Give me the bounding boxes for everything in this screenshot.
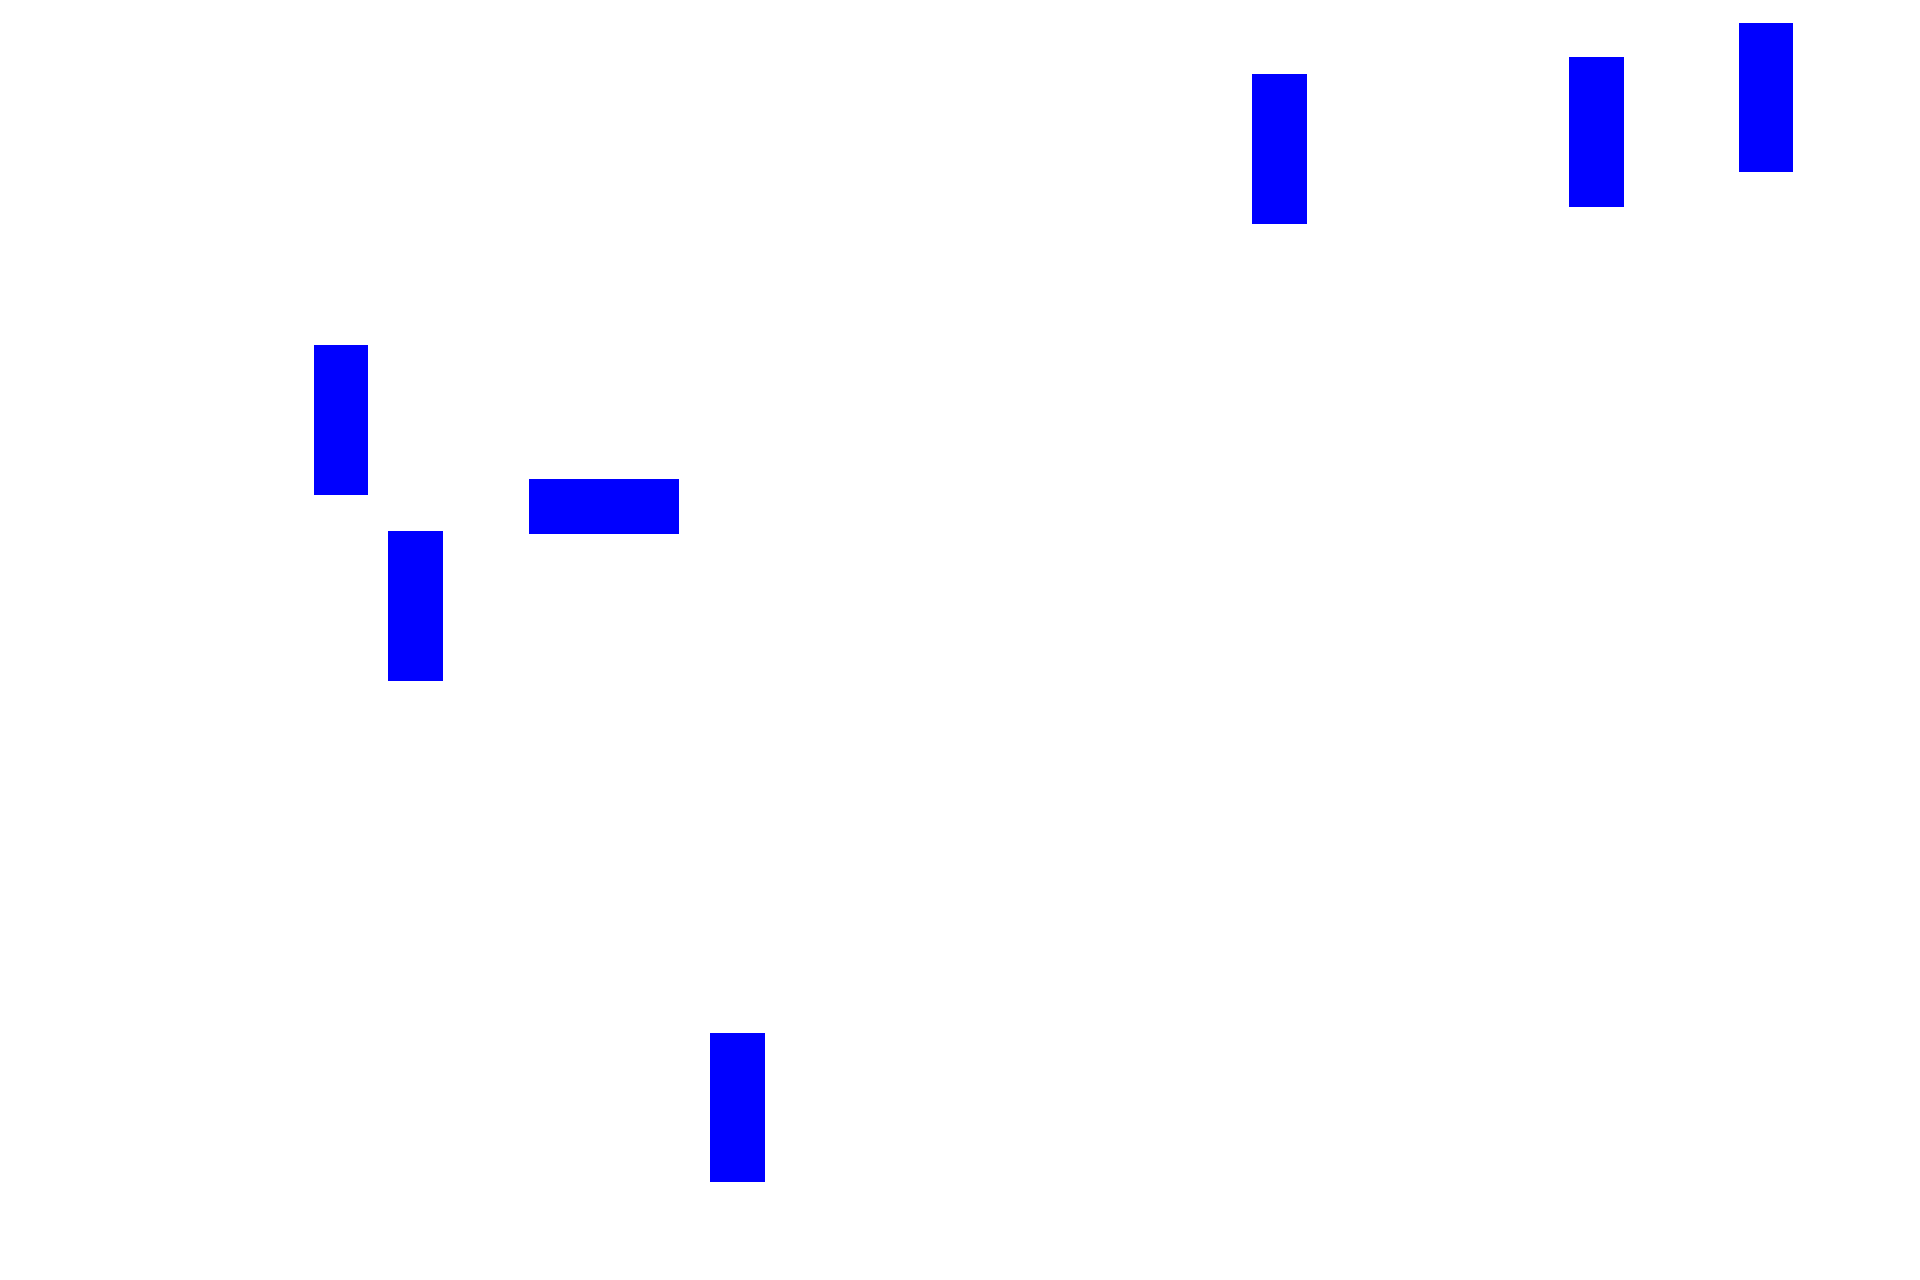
- blue rectangle 4 (left cluster, upper vertical): [314, 345, 368, 495]
- blue rectangle 7 (bottom center): [710, 1033, 765, 1182]
- blue rectangle 1 (top, leftmost of upper-right group): [1252, 74, 1307, 224]
- blue rectangle 2 (top, middle of upper-right group): [1569, 57, 1624, 207]
- blue rectangle 3 (top-right corner): [1739, 23, 1793, 172]
- blue rectangle 6 (left cluster, lower vertical): [388, 531, 443, 681]
- blue rectangle 5 (left cluster, horizontal): [529, 479, 679, 534]
